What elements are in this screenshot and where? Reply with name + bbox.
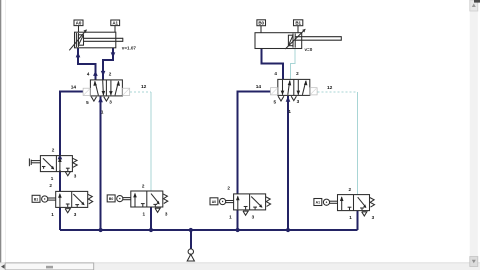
svg-text:A1: A1: [316, 201, 320, 205]
svg-text:B1: B1: [34, 197, 38, 201]
svg-text:3: 3: [74, 174, 77, 179]
svg-text:2: 2: [52, 147, 55, 152]
svg-text:v=0: v=0: [305, 47, 313, 52]
svg-text:14: 14: [71, 84, 77, 90]
svg-text:A0: A0: [212, 200, 216, 204]
svg-text:12: 12: [327, 85, 333, 91]
svg-text:B0: B0: [258, 21, 264, 26]
svg-text:B1: B1: [295, 21, 301, 26]
svg-text:B0: B0: [109, 197, 113, 201]
svg-text:A1: A1: [112, 21, 118, 26]
svg-text:1: 1: [51, 176, 54, 181]
svg-text:A0: A0: [76, 21, 82, 26]
svg-text:14: 14: [256, 84, 262, 90]
svg-text:v=1.07: v=1.07: [122, 45, 137, 50]
svg-text:12: 12: [141, 84, 147, 90]
